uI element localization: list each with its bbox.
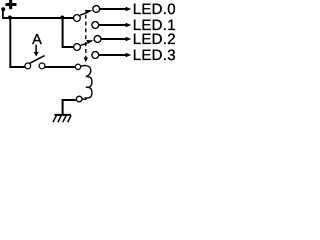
svg-text:LED.2: LED.2 [133,31,176,48]
svg-text:A: A [32,32,42,48]
svg-text:LED.0: LED.0 [133,1,176,18]
svg-text:LED.3: LED.3 [133,47,176,64]
